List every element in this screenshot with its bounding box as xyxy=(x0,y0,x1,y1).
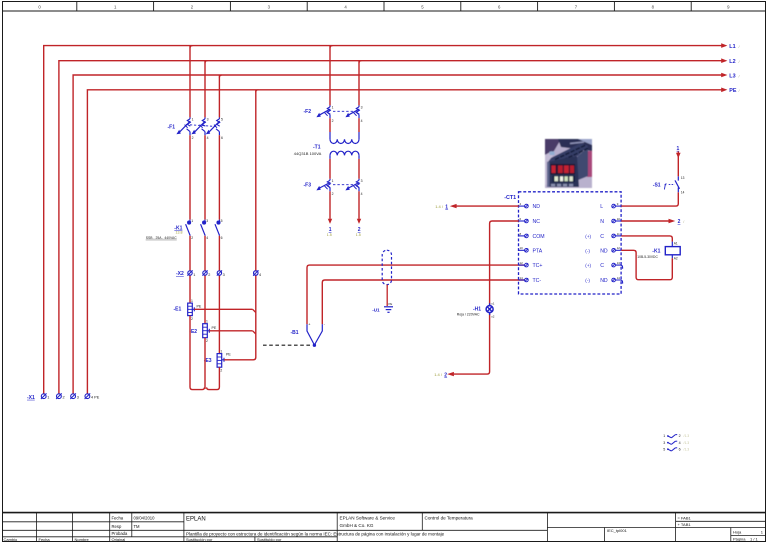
svg-text:SSB - 25A - 440VAC: SSB - 25A - 440VAC xyxy=(146,236,178,240)
svg-text:(+): (+) xyxy=(585,234,591,239)
svg-text:5: 5 xyxy=(221,219,223,223)
svg-text:2: 2 xyxy=(191,236,193,240)
svg-text:2: 2 xyxy=(332,192,334,196)
svg-text:/1.3: /1.3 xyxy=(684,434,690,438)
svg-text:14: 14 xyxy=(681,191,685,195)
svg-text:1.4 /: 1.4 / xyxy=(434,372,443,377)
svg-text:Hoja: Hoja xyxy=(733,529,742,534)
svg-text:-X1: -X1 xyxy=(27,395,35,401)
svg-text:Roja / 220VAC: Roja / 220VAC xyxy=(457,313,480,317)
svg-text:2: 2 xyxy=(206,339,208,343)
svg-text:1.5: 1.5 xyxy=(327,233,332,237)
svg-text:(-): (-) xyxy=(585,278,590,283)
svg-text:1: 1 xyxy=(329,227,332,233)
svg-text:Original: Original xyxy=(112,537,126,542)
svg-text:TC+: TC+ xyxy=(533,263,543,269)
svg-text:C: C xyxy=(600,263,604,269)
svg-text:10: 10 xyxy=(617,217,621,221)
svg-text:3: 3 xyxy=(361,179,363,183)
svg-text:2: 2 xyxy=(191,317,193,321)
svg-text:4: 4 xyxy=(361,192,363,196)
svg-text:ND: ND xyxy=(600,248,608,254)
svg-text:10B-5-30VDC: 10B-5-30VDC xyxy=(637,255,658,259)
svg-text:-S1: -S1 xyxy=(653,182,661,188)
svg-text:-CT1: -CT1 xyxy=(504,195,516,201)
svg-text:1 / 1: 1 / 1 xyxy=(750,537,759,542)
svg-text:Nombre: Nombre xyxy=(75,537,90,542)
svg-text:1: 1 xyxy=(445,204,448,210)
svg-text:6: 6 xyxy=(221,136,223,140)
svg-text:-B1: -B1 xyxy=(291,330,299,336)
svg-text:-E1: -E1 xyxy=(174,307,182,313)
svg-text:-U1: -U1 xyxy=(372,307,380,312)
svg-text:3: 3 xyxy=(223,273,225,277)
svg-text:= FAB1: = FAB1 xyxy=(678,515,692,520)
svg-text:(+): (+) xyxy=(585,263,591,268)
svg-text:11: 11 xyxy=(617,232,620,236)
svg-text:Resp: Resp xyxy=(112,524,122,529)
svg-text:-F1: -F1 xyxy=(168,124,176,130)
svg-text:C: C xyxy=(600,234,604,240)
svg-text:6: 6 xyxy=(221,236,223,240)
svg-text:Control de Temperatura: Control de Temperatura xyxy=(425,516,474,521)
svg-text:A1: A1 xyxy=(674,241,678,245)
svg-text:5: 5 xyxy=(221,118,223,122)
svg-text:3: 3 xyxy=(663,441,665,445)
svg-text:Fecha: Fecha xyxy=(112,516,124,521)
svg-text:TC-: TC- xyxy=(533,278,542,284)
svg-text:Plantilla de proyecto con estr: Plantilla de proyecto con estructura de … xyxy=(186,531,445,536)
svg-text:x1: x1 xyxy=(491,302,495,306)
svg-text:x2: x2 xyxy=(491,314,495,318)
svg-text:1.4 /: 1.4 / xyxy=(435,204,444,209)
svg-text:14: 14 xyxy=(617,276,621,280)
svg-text:+ TAB1: + TAB1 xyxy=(678,522,692,527)
svg-text:1.5: 1.5 xyxy=(356,233,361,237)
svg-text:2: 2 xyxy=(679,434,681,438)
svg-text:2: 2 xyxy=(208,273,210,277)
svg-text:EPLAN: EPLAN xyxy=(186,517,206,523)
svg-text:1: 1 xyxy=(191,219,193,223)
svg-text:Sustituido por: Sustituido por xyxy=(257,537,282,542)
svg-text:6: 6 xyxy=(679,447,681,451)
svg-text:NC: NC xyxy=(533,219,541,225)
svg-text:4: 4 xyxy=(206,236,208,240)
svg-text:Fecha: Fecha xyxy=(39,537,51,542)
svg-text:2: 2 xyxy=(678,219,681,225)
svg-text:EPLAN Software & Service: EPLAN Software & Service xyxy=(340,516,396,521)
svg-text:Cambio: Cambio xyxy=(4,537,19,542)
svg-text:10: 10 xyxy=(520,246,524,250)
svg-text:1: 1 xyxy=(192,118,194,122)
svg-text:13: 13 xyxy=(681,176,685,180)
svg-text:13.8: 13.8 xyxy=(176,230,183,234)
svg-text:1: 1 xyxy=(193,273,195,277)
svg-text:ND: ND xyxy=(533,204,541,210)
svg-text:-K1: -K1 xyxy=(652,248,660,254)
svg-text:1: 1 xyxy=(47,396,49,400)
svg-text:2: 2 xyxy=(192,136,194,140)
svg-text:4: 4 xyxy=(259,273,261,277)
svg-text:1: 1 xyxy=(206,320,208,324)
svg-text:PE: PE xyxy=(389,302,393,306)
svg-text:4: 4 xyxy=(207,136,209,140)
svg-text:IEC_tpl001: IEC_tpl001 xyxy=(607,528,628,533)
svg-text:Probada: Probada xyxy=(112,531,129,536)
svg-text:5: 5 xyxy=(663,447,665,451)
svg-text:(-): (-) xyxy=(585,248,590,253)
svg-text:3: 3 xyxy=(361,106,363,110)
svg-text:GmbH & Co. KG: GmbH & Co. KG xyxy=(340,523,374,528)
svg-text:A2: A2 xyxy=(674,257,678,261)
svg-text:1: 1 xyxy=(220,349,222,353)
svg-text:COM: COM xyxy=(533,234,545,240)
svg-text:ƒ: ƒ xyxy=(663,183,667,190)
svg-text:2: 2 xyxy=(63,396,65,400)
svg-text:2: 2 xyxy=(444,372,447,378)
svg-text:PE: PE xyxy=(212,326,217,330)
svg-text:2: 2 xyxy=(220,368,222,372)
svg-text:L1: L1 xyxy=(729,44,735,50)
svg-text:ND: ND xyxy=(600,278,608,284)
svg-text:PE: PE xyxy=(197,304,202,308)
svg-text:4 PE: 4 PE xyxy=(91,396,100,400)
svg-text:PTA: PTA xyxy=(533,248,543,254)
svg-text:12: 12 xyxy=(520,261,524,265)
svg-text:13: 13 xyxy=(617,261,621,265)
svg-text:-F2: -F2 xyxy=(304,109,312,115)
svg-text:-H1: -H1 xyxy=(473,306,481,312)
svg-text:1: 1 xyxy=(191,299,193,303)
svg-text:4: 4 xyxy=(679,441,681,445)
svg-text:4: 4 xyxy=(361,119,363,123)
svg-text:3: 3 xyxy=(206,219,208,223)
svg-text:L3: L3 xyxy=(729,73,735,79)
svg-text:2: 2 xyxy=(358,227,361,233)
svg-text:-X2: -X2 xyxy=(176,271,184,277)
svg-text:/1.3: /1.3 xyxy=(684,441,690,445)
svg-text:PE: PE xyxy=(226,353,231,357)
svg-text:/1.3: /1.3 xyxy=(684,447,690,451)
svg-text:14: 14 xyxy=(520,276,524,280)
svg-text:1: 1 xyxy=(677,146,680,152)
svg-text:Sustitución por: Sustitución por xyxy=(186,537,213,542)
svg-text:1: 1 xyxy=(332,179,334,183)
svg-text:L: L xyxy=(600,204,603,210)
svg-text:12: 12 xyxy=(617,246,621,250)
svg-text:N: N xyxy=(600,219,604,225)
svg-text:-F3: -F3 xyxy=(304,182,312,188)
svg-text:1: 1 xyxy=(332,106,334,110)
svg-text:1: 1 xyxy=(663,434,665,438)
svg-text:09/04/2010: 09/04/2010 xyxy=(134,516,156,521)
svg-text:Página: Página xyxy=(733,537,746,542)
svg-text:2: 2 xyxy=(332,119,334,123)
svg-text:TM: TM xyxy=(134,524,141,529)
svg-text:L2: L2 xyxy=(729,59,735,65)
svg-text:PE: PE xyxy=(729,88,737,94)
svg-text:44Q31B 100VA: 44Q31B 100VA xyxy=(294,151,322,156)
svg-text:3: 3 xyxy=(207,118,209,122)
svg-text:3: 3 xyxy=(77,396,79,400)
svg-text:-T1: -T1 xyxy=(313,145,321,151)
